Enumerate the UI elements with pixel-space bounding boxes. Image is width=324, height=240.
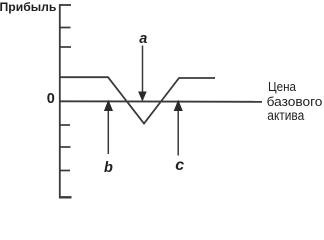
- payoff curve (short butterfly profile): [60, 77, 215, 123]
- svg-text:a: a: [139, 31, 147, 47]
- svg-text:Прибыль: Прибыль: [0, 0, 56, 14]
- arrow c (upward): [177, 110, 179, 156]
- tick y=5 (top): [59, 4, 71, 6]
- svg-text:c: c: [175, 157, 184, 174]
- tick y=27.5: [59, 27, 71, 29]
- arrow b (upward): [107, 110, 109, 154]
- svg-text:Цена: Цена: [268, 79, 297, 94]
- tick y=47: [59, 46, 71, 48]
- tick y=197.3 (bottom): [59, 196, 72, 198]
- svg-text:b: b: [104, 160, 113, 176]
- tick y=147: [59, 146, 71, 148]
- arrow a (downward): [142, 46, 144, 94]
- tick y=170.5: [59, 170, 70, 172]
- zero line (x-axis): [59, 100, 262, 103]
- tick y=125: [59, 124, 70, 126]
- svg-text:актива: актива: [267, 108, 304, 123]
- y-axis: [59, 4, 61, 198]
- svg-text:0: 0: [47, 91, 55, 107]
